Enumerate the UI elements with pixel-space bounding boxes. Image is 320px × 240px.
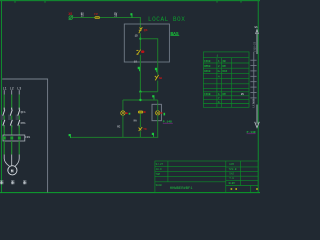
panel caption chars (white) [0,181,26,185]
left panel enclosure (existing pump starter) [2,79,47,192]
right margin terminal strip [253,52,255,104]
svg-text:LYJV22: LYJV22 [252,98,255,107]
svg-text:BAS: BAS [170,31,179,37]
FU2 red dot [143,111,145,113]
wires below FR1 (green) [4,141,19,155]
wire: tie branch to main [140,91,157,93]
thermal relay FR1 box [3,135,25,141]
title block yellow marks [231,188,258,190]
wire tag below box (main) [138,67,140,71]
wire: top horizontal feeder [73,17,141,19]
LOCAL BOX enclosure [124,24,169,62]
outgoing cable down-arrow [255,105,260,128]
svg-text:FA5B: FA5B [204,93,211,96]
wire tag below box (branch) [155,68,157,72]
svg-text:SHJB: SHJB [156,184,163,187]
wire: distribution bus [123,99,158,101]
wire: lamp2 to bottom bus [157,115,159,137]
wires between KM1 and FR1 [4,125,19,135]
svg-text:RC: RC [117,126,121,129]
contactor body shading [1,115,19,120]
title block grid [155,161,258,193]
wire: vertical drop into local box [139,17,141,27]
wire: lamp1 branch [122,100,124,111]
fuse FU1 (yellow) [95,16,101,19]
wire: below FU2 [139,113,141,127]
svg-text:QS: QS [144,29,148,32]
border frame left [0,1,2,193]
wire: QS to box bottom [139,55,141,92]
svg-text:BV: BV [241,93,245,96]
svg-text:LYJV-22: LYJV-22 [254,41,257,52]
contact K2 on branch (yellow) [155,75,159,81]
svg-text:1D: 1D [135,35,139,38]
wire: bottom return bus [70,136,158,138]
svg-text:L1: L1 [3,87,7,91]
svg-text:FA50: FA50 [204,60,211,63]
svg-text:T.H: T.H [229,177,234,180]
svg-text:YWP: YWP [156,173,161,176]
HL1 red dot [125,112,128,114]
svg-text:LOCAL BOX: LOCAL BOX [148,16,185,23]
wire: branch below box [157,62,159,75]
svg-text:XS: XS [68,12,72,16]
bottom bus corner tag [152,133,154,137]
wire: below QS1 to junction [139,33,141,49]
contactor KM1 poles (white blades) [3,120,20,126]
svg-text:GCM: GCM [229,163,234,166]
svg-text:SHJ: SHJ [229,173,234,176]
lamp HL1 (yellow, X inside) [121,111,125,115]
svg-text:KA50: KA50 [204,70,211,73]
wire: branch to tie point [157,81,159,92]
wire: main down to bus [139,92,141,100]
contact K1 (yellow w/ red dot) [136,50,140,55]
phase wire stubs (white upper) [4,90,19,94]
wire: branch to right inside box [140,39,157,62]
junction node [139,91,141,93]
svg-text:KA5: KA5 [223,70,228,73]
svg-text:10: 10 [134,60,138,63]
fuse FU2 (yellow) [138,111,143,114]
border frame top [0,0,260,2]
svg-text:HHWBER#BF1: HHWBER#BF1 [170,187,194,191]
HL2 green tag [164,113,166,116]
svg-text:FU: FU [94,13,98,16]
contact K3 (yellow X) [139,127,143,131]
title block middle labels [229,163,237,185]
svg-text:TK: TK [143,128,147,131]
FR1 heater elements (green) [3,136,21,139]
motor leads (white, converging) [4,155,19,167]
phase wires (green) [4,95,19,110]
svg-text:KM1: KM1 [21,122,26,125]
svg-text:SJ.ZT: SJ.ZT [156,163,164,166]
svg-text:QF1: QF1 [21,111,26,114]
motor M [8,166,17,175]
svg-text:BLBM: BLBM [229,182,236,185]
breaker QF1 poles (white blades) [3,110,20,116]
border frame bottom [0,192,260,194]
wire: lamp1 to bottom bus [122,115,124,137]
svg-text:L2: L2 [10,87,14,91]
HL1 green tick [129,113,131,115]
border frame right [257,1,259,193]
bottom bus start tag [69,134,71,138]
svg-text:KM50: KM50 [204,65,211,68]
terminal table texts [204,54,227,104]
svg-text:TZH.B: TZH.B [229,168,237,171]
wire tag B at corner [130,13,132,17]
svg-text:FR1: FR1 [25,136,30,139]
HL2 red dash [160,112,163,113]
svg-text:KA: KA [134,119,138,122]
incoming cable up-arrow [256,30,259,54]
node: power tap circle [69,15,73,20]
switch QS1 (yellow) [139,27,143,33]
svg-text:KM: KM [223,65,227,68]
wire: lamp2 branch drop [157,100,159,104]
wires between QF1 and KM1 [4,115,19,119]
svg-text:XB: XB [223,60,227,63]
frame tick marks [15,1,241,3]
lamp2 enclosure box [152,104,161,120]
wire inside lamp2 box [157,104,159,111]
svg-text:M: M [11,168,14,174]
junction node [139,38,141,40]
bus tag [152,95,154,99]
svg-text:KM: KM [223,93,227,96]
svg-text:3+: 3+ [217,70,221,73]
red indicator dot [141,50,144,53]
terminal table grid [203,52,249,107]
lamp HL2 (yellow, X inside) [156,111,160,115]
wire: K3 to bottom bus [139,131,141,137]
svg-text:W1: W1 [255,26,259,29]
svg-text:JH.D: JH.D [156,168,163,171]
junction node on bus [139,99,141,101]
svg-text:L3: L3 [17,87,21,91]
title block left labels [156,163,164,187]
svg-text:AB: AB [159,77,163,80]
